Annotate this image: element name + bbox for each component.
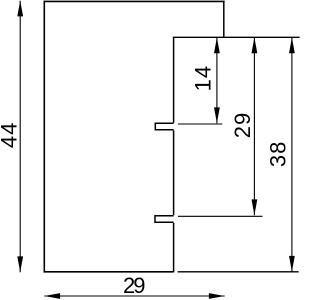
svg-text:29: 29 [230,113,255,139]
part bottom edge [44,271,174,273]
svg-text:29: 29 [123,273,146,298]
dimension label 44 [0,123,21,149]
dimension label 29 (bottom) [123,273,146,298]
extension line for 29 (right) [178,215,263,217]
tab 2 (lower notch) [155,216,174,223]
svg-text:38: 38 [265,142,290,168]
part right edge (upper block) [223,1,225,38]
dimension line 29 (right) [252,37,258,215]
part top edge [44,0,225,2]
svg-text:44: 44 [0,123,21,149]
bottom extension line [178,271,299,273]
inner vertical edge segment 3 [173,223,175,272]
inner vertical edge segment 2 [173,130,175,215]
dimension line 29 (bottom) [44,293,224,299]
dimension label 14 [191,66,216,92]
inner vertical edge segment 1 [173,37,175,122]
svg-text:14: 14 [191,66,216,92]
dimension line 14 [214,37,220,123]
step edge at y=37 with right extension line [173,36,300,38]
part left edge [43,1,45,273]
dimension line 38 [289,37,295,271]
dimension line 44 (left) [17,1,23,273]
dimension label 38 [265,142,290,168]
dimension label 29 (right) [230,113,255,139]
tab 1 (upper notch) [155,123,173,129]
extension line for 14 [178,123,223,125]
